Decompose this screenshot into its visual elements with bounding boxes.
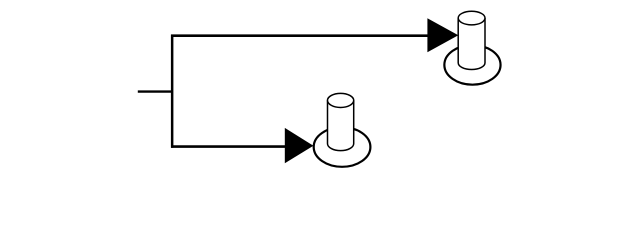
post symbol bottom: cylinder body [328, 100, 354, 150]
post symbol top: cylinder body [458, 18, 485, 69]
wire: bottom branch [171, 145, 286, 148]
arrowhead: bottom branch [285, 128, 314, 163]
wire: vertical trunk [171, 34, 174, 147]
wire: top branch [171, 34, 429, 37]
post symbol top: base ellipse [444, 45, 500, 85]
post symbol top: cylinder top ellipse [458, 11, 485, 25]
post symbol bottom: base ellipse [314, 127, 371, 167]
wire: input stub [138, 90, 172, 92]
arrowhead: top branch [427, 18, 458, 52]
post symbol bottom: cylinder top ellipse [328, 93, 354, 107]
